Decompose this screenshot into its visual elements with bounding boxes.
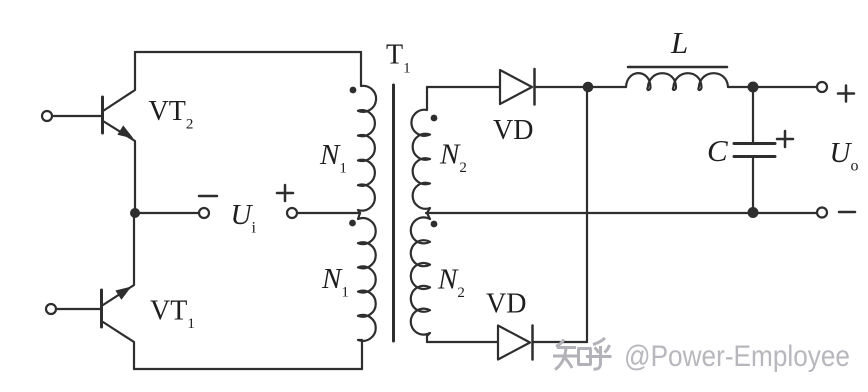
terminal output minus	[817, 208, 827, 218]
transistor Q VT1 base bar	[100, 290, 103, 327]
terminal output plus	[817, 82, 827, 92]
arrow VT1 emitter	[115, 287, 131, 300]
wire VT1 emitter lead	[103, 213, 134, 305]
svg-text:N2: N2	[437, 264, 465, 302]
diode VD upper triangle	[500, 70, 532, 104]
svg-text:Uo: Uo	[830, 137, 859, 175]
node cap top junction	[748, 82, 759, 93]
polarity dot N1 lower	[349, 220, 356, 227]
svg-text:VD: VD	[493, 115, 533, 146]
transformer T1 secondary winding N2 upper	[411, 87, 430, 213]
svg-text:VD: VD	[486, 289, 526, 320]
polarity dot N2 lower	[431, 221, 438, 228]
transformer T1 core	[392, 85, 395, 341]
wire lower diode to vertical	[533, 341, 587, 343]
terminal VT1 base	[46, 304, 56, 314]
capacitor C bottom lead	[752, 158, 754, 212]
wire top rail (VT2 collector to primary top)	[135, 51, 361, 53]
wire secondary top to diode	[427, 86, 500, 88]
diode VD lower triangle	[498, 326, 530, 360]
wire node to Ui minus terminal	[135, 212, 199, 214]
watermark 乎	[586, 338, 612, 369]
watermark 知	[553, 338, 612, 370]
svg-text:T1: T1	[386, 40, 411, 77]
wire bottom rail (VT1 collector to primary bottom)	[134, 368, 362, 370]
inductor L core bar	[628, 66, 727, 69]
label minus output	[839, 211, 855, 214]
wire Ui plus to primary center tap	[297, 212, 360, 214]
terminal Ui plus	[287, 208, 297, 218]
svg-text:Ui: Ui	[231, 199, 257, 237]
capacitor C top lead	[752, 87, 754, 142]
arrow VT2 emitter	[117, 125, 133, 138]
svg-text:VT1: VT1	[150, 296, 195, 333]
transformer T1 primary winding N1 lower	[358, 213, 376, 369]
polarity dot N2 upper	[431, 115, 438, 122]
svg-text:@Power-Employee: @Power-Employee	[624, 340, 850, 373]
wire VT2 emitter lead	[103, 121, 135, 213]
transformer T1 secondary winding N2 lower	[411, 213, 430, 342]
wire inductor to cap junction	[728, 86, 817, 88]
svg-text:N1: N1	[321, 263, 349, 301]
svg-text:N1: N1	[319, 139, 347, 177]
wire center tap rail (secondary tap to output minus)	[426, 212, 817, 214]
diode VD upper cathode bar	[533, 69, 536, 105]
wire cathode junction vertical	[586, 87, 588, 342]
diode VD lower cathode bar	[531, 326, 534, 360]
svg-text:N2: N2	[439, 139, 467, 177]
svg-text:VT2: VT2	[149, 96, 194, 133]
wire VT1 collector lead	[103, 322, 134, 369]
node emitter junction	[130, 208, 140, 218]
inductor L coil	[626, 73, 728, 90]
terminal VT2 base	[42, 111, 52, 121]
label minus Ui	[199, 195, 217, 198]
wire VT1 base	[56, 308, 100, 310]
svg-text:C: C	[707, 133, 728, 168]
label plus Ui	[277, 185, 293, 201]
node cap bottom junction	[748, 207, 759, 218]
wire junction to inductor	[587, 86, 626, 88]
wire diode to L junction	[535, 86, 589, 88]
svg-text:L: L	[670, 25, 688, 60]
wire VT2 base	[52, 115, 101, 117]
label plus output	[838, 86, 854, 102]
terminal Ui minus	[199, 208, 209, 218]
capacitor C plates	[734, 144, 775, 157]
transformer T1 primary winding N1 upper	[358, 52, 376, 213]
wire secondary bottom to lower diode	[427, 341, 498, 343]
node diode cathodes junction	[583, 82, 594, 93]
wire VT2 collector lead	[103, 52, 135, 111]
label plus capacitor	[777, 131, 793, 147]
transistor Q VT2 base bar	[101, 97, 104, 133]
polarity dot N1 upper	[350, 87, 357, 94]
